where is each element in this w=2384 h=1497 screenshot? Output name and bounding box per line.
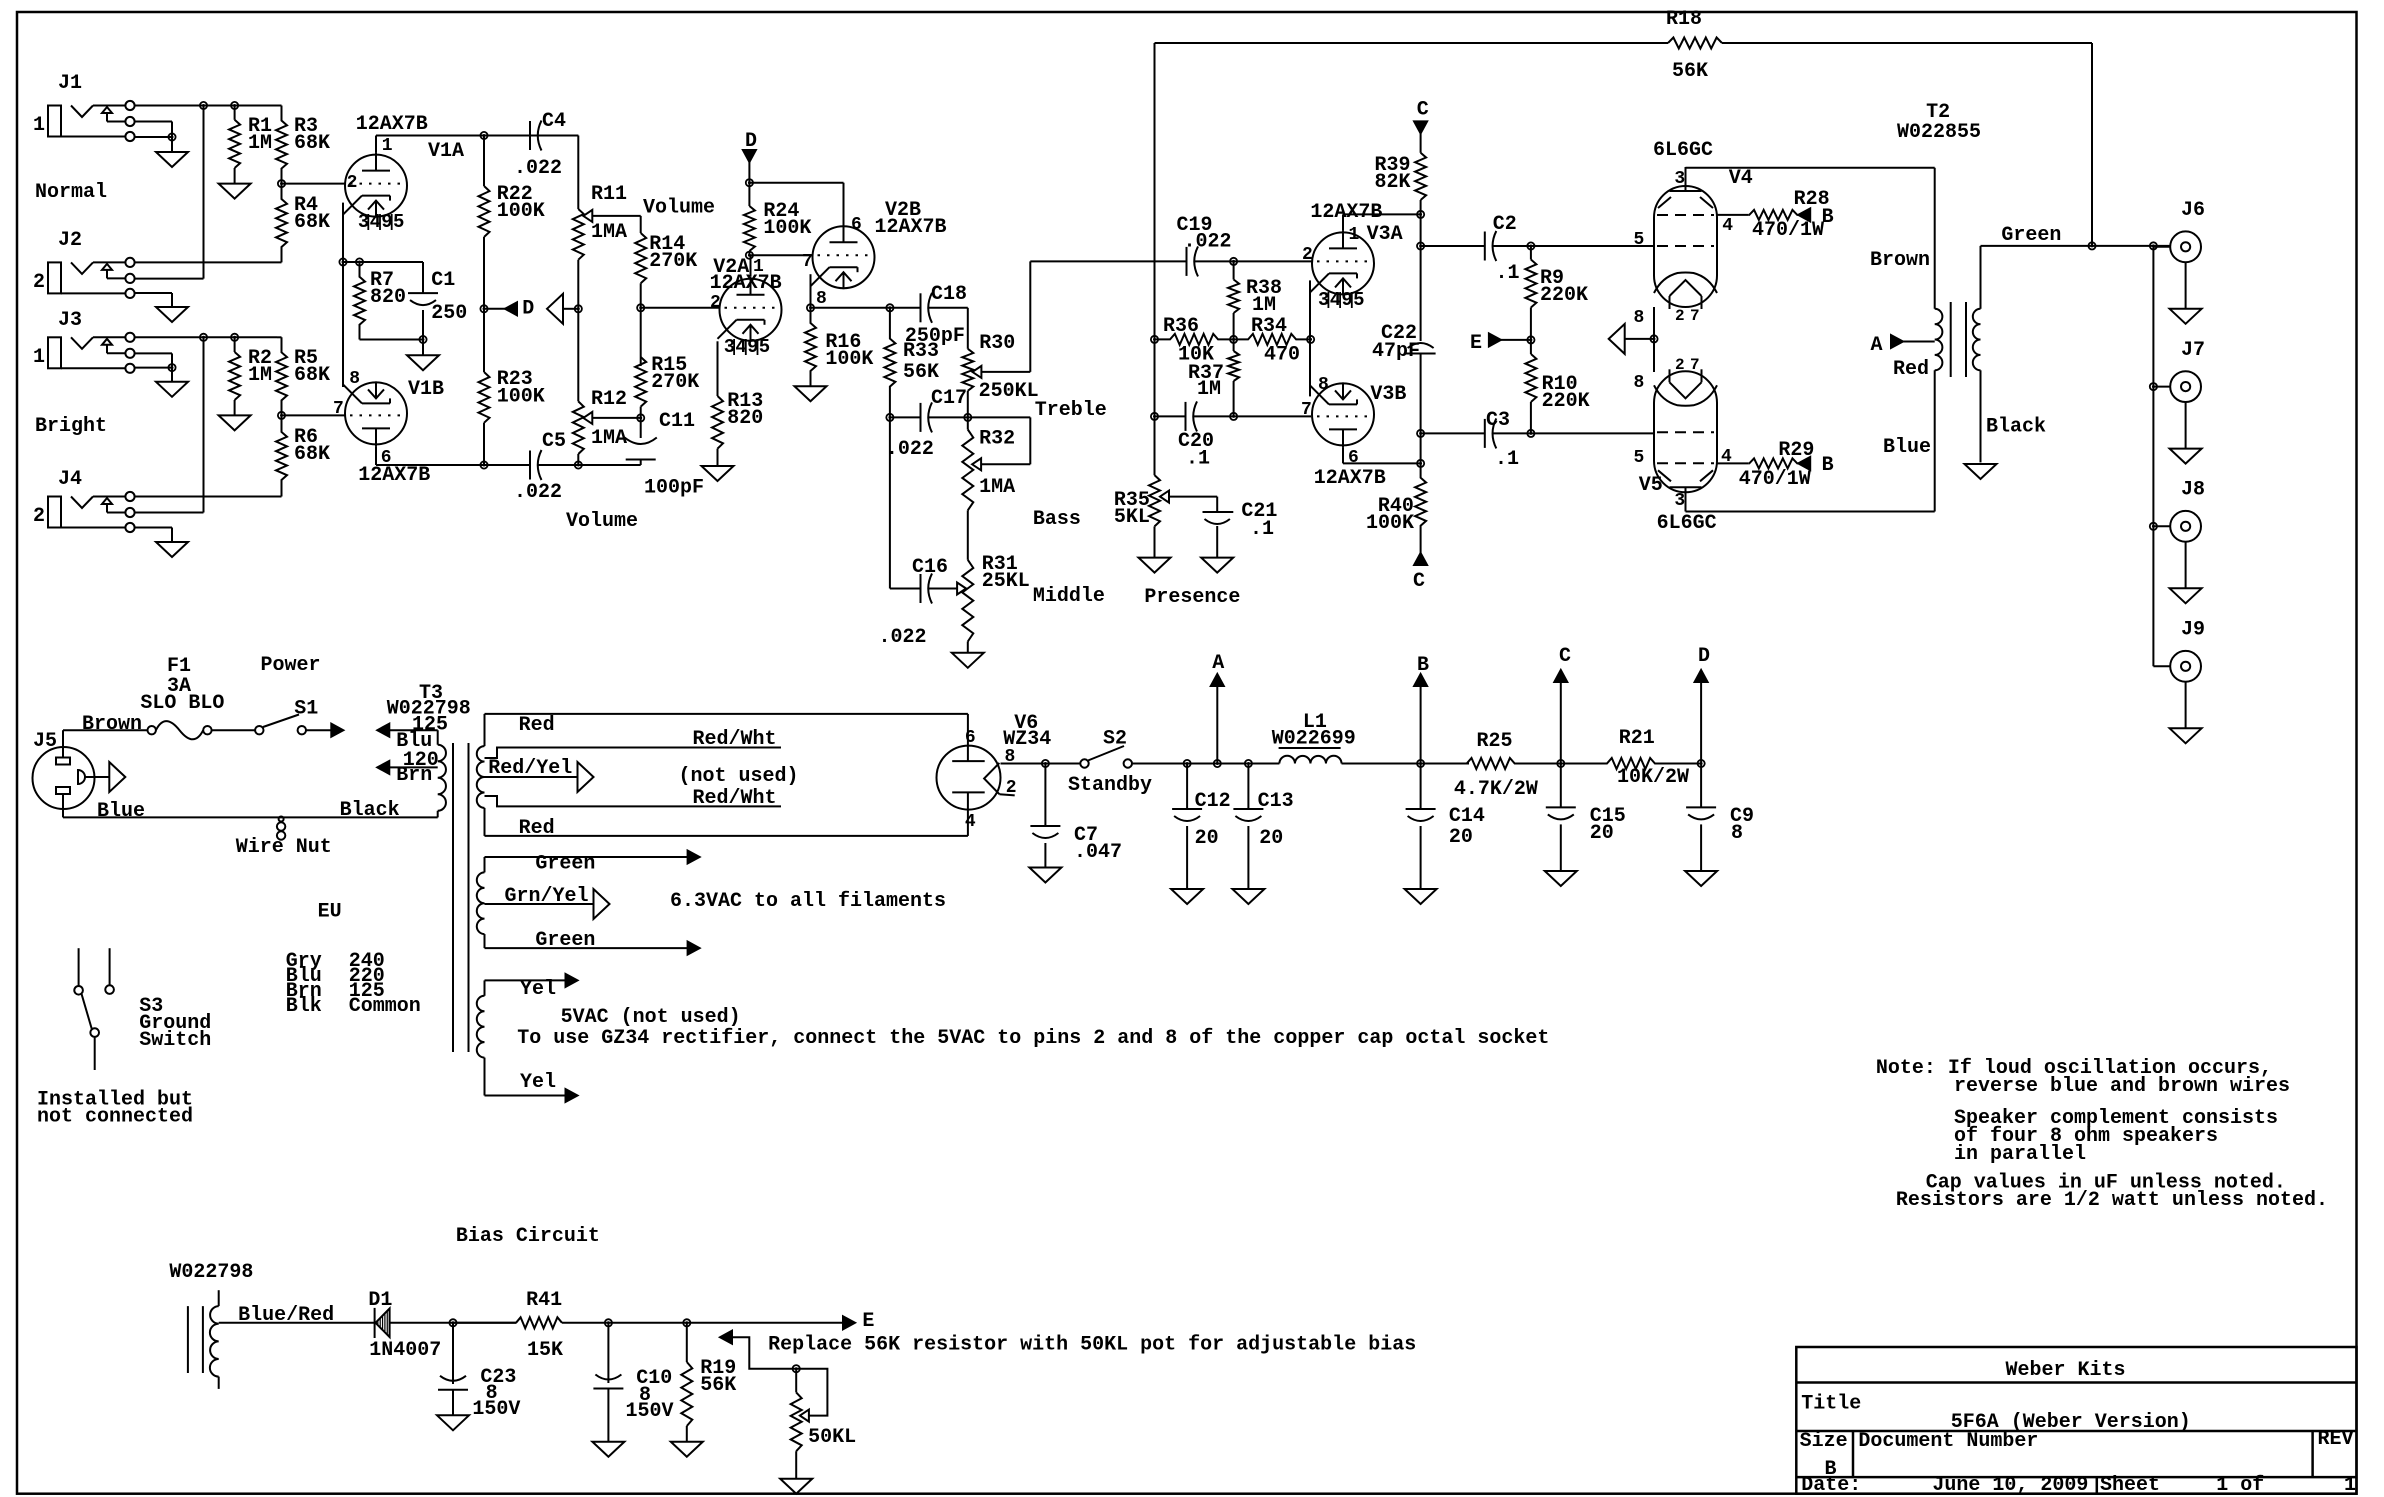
svg-text:1M: 1M (248, 132, 272, 155)
svg-text:5: 5 (1353, 289, 1364, 311)
resistor R1 (234, 106, 236, 120)
hollow arrow at 6L6 cathode node (1609, 324, 1625, 354)
resistor R33 (884, 308, 895, 418)
svg-text:25KL: 25KL (982, 570, 1030, 593)
svg-text:12AX7B: 12AX7B (710, 272, 782, 295)
wire T3 primary bottom Black to J5 (63, 816, 438, 818)
svg-text:250KL: 250KL (979, 380, 1039, 403)
title block (1796, 1347, 2356, 1494)
svg-text:56K: 56K (1672, 60, 1708, 83)
svg-text:82K: 82K (1375, 171, 1411, 194)
svg-text:C16: C16 (912, 556, 948, 579)
svg-text:270K: 270K (651, 371, 699, 394)
svg-text:5: 5 (1633, 448, 1644, 468)
capacitor C12 20 (1186, 764, 1188, 810)
svg-text:50KL: 50KL (808, 1426, 856, 1449)
potentiometer R35 Presence 5KL (1154, 416, 1156, 475)
svg-text:2: 2 (33, 271, 45, 294)
capacitor C5 (529, 451, 531, 480)
potentiometer R30 Treble 250KL (962, 349, 973, 391)
capacitor C17 (920, 403, 922, 432)
flag arrow into T3 Blu tap (377, 724, 389, 737)
svg-text:1MA: 1MA (591, 221, 627, 244)
svg-text:1M: 1M (248, 364, 272, 387)
triode V1B 12AX7B (345, 382, 407, 444)
triode V3B 12AX7B (1312, 383, 1374, 445)
ground R1 (219, 184, 251, 199)
ground C23 (437, 1415, 469, 1430)
triode V2A 12AX7B (720, 279, 782, 341)
wire V2B cathode node right (811, 307, 921, 309)
svg-text:W022798: W022798 (169, 1261, 253, 1284)
wire V3B plate down (1342, 447, 1344, 463)
flag B at R28 (1798, 208, 1810, 221)
resistor R40 100K (1415, 463, 1426, 540)
svg-text:5: 5 (759, 336, 770, 358)
wire J5 ground pin to hollow arrow (85, 776, 109, 778)
svg-text:47pF: 47pF (1372, 340, 1420, 363)
ground J6 (2170, 309, 2202, 324)
wire J3 tip rail (135, 336, 277, 338)
svg-text:J1: J1 (58, 72, 82, 95)
ground C7 (1029, 868, 1061, 883)
resistor R34 470 (1234, 334, 1311, 345)
svg-text:6.3VAC to all filaments: 6.3VAC to all filaments (670, 890, 946, 913)
wire J4 sleeve to ground (135, 527, 172, 529)
svg-text:Red: Red (1893, 358, 1929, 381)
svg-text:C4: C4 (542, 110, 566, 133)
ground C15 (1545, 871, 1577, 886)
svg-text:1MA: 1MA (591, 427, 627, 450)
svg-text:B: B (1822, 454, 1834, 477)
svg-text:R32: R32 (979, 428, 1015, 451)
svg-text:D: D (522, 298, 534, 321)
wire speaker bus (2152, 246, 2154, 666)
svg-text:R34: R34 (1251, 315, 1287, 338)
ground R16 (795, 386, 827, 401)
resistor R38 1M (1233, 261, 1235, 279)
svg-text:R12: R12 (591, 388, 627, 411)
svg-text:J6: J6 (2181, 199, 2205, 222)
flag arrow into T3 Brn tap (377, 761, 389, 774)
svg-text:7: 7 (1301, 400, 1312, 420)
T2 primary winding (1934, 168, 1936, 309)
svg-text:E: E (1470, 332, 1482, 355)
resistor R10 220K (1530, 340, 1532, 354)
resistor R37 1M (1233, 339, 1235, 351)
svg-text:R25: R25 (1477, 730, 1513, 753)
wire S1 to arrow (306, 729, 331, 731)
svg-text:.1: .1 (1250, 518, 1274, 541)
wire R39 to C2 node (1420, 214, 1422, 246)
capacitor C9 8 (1700, 764, 1702, 808)
svg-text:7: 7 (333, 399, 344, 419)
wire V6 cathode pin 8 to standby switch (1001, 763, 1081, 765)
svg-text:4.7K/2W: 4.7K/2W (1454, 778, 1538, 801)
T2 secondary bottom to ground (1980, 370, 1982, 462)
wire J1 sleeve-mid (135, 136, 172, 138)
svg-text:June 10, 2009: June 10, 2009 (1932, 1474, 2088, 1497)
svg-text:A: A (1871, 334, 1883, 357)
svg-text:Red/Wht: Red/Wht (693, 728, 777, 751)
svg-text:68K: 68K (294, 132, 330, 155)
wire V1A cathode down (342, 203, 344, 262)
T3 Grn/Yel tap (485, 903, 594, 905)
bottom rail C5/C11 (539, 464, 641, 466)
wire V3A plate to R39 node (1342, 214, 1344, 230)
svg-text:V1A: V1A (428, 140, 464, 163)
ground J9 (2170, 728, 2202, 743)
svg-text:.1: .1 (1186, 448, 1210, 471)
svg-text:5: 5 (1633, 230, 1644, 250)
svg-text:C: C (1413, 570, 1425, 593)
svg-text:Wire Nut: Wire Nut (236, 836, 332, 859)
ground C21 (1201, 558, 1233, 573)
capacitor C14 20 (1420, 764, 1422, 810)
wire C16 row (889, 417, 891, 588)
resistor R24 (748, 183, 750, 206)
T3 Yel bottom tap (484, 1058, 486, 1096)
svg-text:2: 2 (1675, 356, 1685, 374)
svg-text:C18: C18 (931, 283, 967, 306)
wire V1B plate down to bottom rail (375, 446, 377, 465)
svg-text:7: 7 (1690, 356, 1700, 374)
wire R41 to R19/E (608, 1322, 843, 1324)
T3 tap Red/Yel to hollow arrow (485, 776, 578, 778)
wire C17 row (890, 416, 921, 418)
svg-text:Red: Red (519, 714, 555, 737)
T2 secondary winding (1973, 309, 1981, 371)
svg-text:Red/Yel: Red/Yel (488, 757, 572, 780)
svg-text:8: 8 (349, 369, 360, 389)
svg-text:Document Number: Document Number (1858, 1430, 2038, 1453)
svg-text:.022: .022 (886, 438, 934, 461)
ground R2 (219, 415, 251, 430)
resistor R14 (640, 216, 642, 233)
wire V4 plate to transformer (1685, 166, 1687, 169)
svg-text:1: 1 (33, 346, 45, 369)
wire R3/R4 node to V1A grid pin 2 (282, 183, 346, 185)
wire S2 to filter caps (1132, 763, 1279, 765)
svg-text:J3: J3 (58, 309, 82, 332)
svg-text:C11: C11 (659, 410, 695, 433)
svg-text:Power: Power (261, 654, 321, 677)
svg-text:1: 1 (33, 114, 45, 137)
resistor R6 (276, 415, 287, 496)
svg-text:.1: .1 (1495, 448, 1519, 471)
svg-text:20: 20 (1259, 827, 1283, 850)
svg-text:V3B: V3B (1370, 383, 1406, 406)
svg-text:Middle: Middle (1033, 585, 1105, 608)
ground R19 (671, 1442, 703, 1457)
svg-text:R18: R18 (1666, 8, 1702, 31)
svg-text:A: A (1212, 652, 1224, 675)
svg-text:Brown: Brown (82, 713, 142, 736)
svg-text:100K: 100K (1366, 512, 1414, 535)
svg-text:2: 2 (33, 505, 45, 528)
resistor R16 (805, 308, 816, 386)
resistor R2 (234, 337, 236, 352)
wire J3 middle to sleeve (135, 352, 172, 354)
resistor R15 (640, 308, 642, 366)
svg-text:820: 820 (370, 286, 406, 309)
wire V2A plate lead (750, 255, 752, 276)
feedback line from R18 rail (1154, 43, 1156, 475)
wiper R32 (972, 458, 981, 470)
capacitor C11 (640, 418, 642, 438)
flag E bias output (843, 1316, 855, 1329)
flag arrow to 50KL pot note (720, 1331, 732, 1344)
resistor R7 (354, 262, 365, 340)
wire R7/C1 bottom (360, 339, 424, 341)
svg-text:C12: C12 (1195, 790, 1231, 813)
svg-text:C: C (1417, 99, 1429, 122)
ground T2 secondary (1965, 464, 1997, 479)
triode V2B 12AX7B (813, 226, 875, 288)
svg-text:56K: 56K (903, 361, 939, 384)
svg-text:C: C (1559, 645, 1571, 668)
T3 secondary Red bottom lead (484, 808, 486, 836)
svg-text:12AX7B: 12AX7B (358, 464, 430, 487)
svg-text:reverse blue and brown wires: reverse blue and brown wires (1954, 1075, 2290, 1098)
flag B at R29 (1798, 457, 1810, 470)
svg-text:1: 1 (753, 257, 764, 277)
svg-text:150V: 150V (626, 1400, 674, 1423)
svg-text:Brown: Brown (1870, 249, 1930, 272)
resistor R28 470/1W (1748, 210, 1798, 220)
svg-text:Bias Circuit: Bias Circuit (456, 1225, 600, 1248)
wire cathode node to R7/C1 (343, 261, 423, 263)
svg-text:220K: 220K (1540, 284, 1588, 307)
flag C below R40 (1414, 553, 1427, 565)
svg-text:100K: 100K (497, 200, 545, 223)
wire V3B cathode up to tail node (1309, 339, 1311, 396)
T3 Green bottom tap (484, 934, 486, 948)
svg-text:B: B (1417, 654, 1429, 677)
wire Blue/Red tap to diode (219, 1322, 375, 1324)
resistor R29 470/1W (1748, 458, 1798, 468)
svg-text:Common: Common (349, 995, 421, 1018)
wire fuse to S1 (212, 729, 256, 731)
svg-text:6: 6 (851, 215, 862, 235)
wire nut (279, 817, 284, 822)
svg-text:C13: C13 (1258, 790, 1294, 813)
svg-text:V5: V5 (1639, 474, 1663, 497)
svg-text:10K/2W: 10K/2W (1617, 766, 1689, 789)
svg-text:68K: 68K (294, 211, 330, 234)
svg-text:Sheet: Sheet (2100, 1474, 2160, 1497)
T2 core (1950, 302, 1952, 377)
svg-text:8: 8 (1318, 375, 1329, 395)
svg-text:Black: Black (1986, 416, 2046, 439)
potentiometer R12 (573, 401, 584, 454)
ground R13 (702, 466, 734, 481)
svg-text:Blue: Blue (97, 800, 145, 823)
capacitor C7 .047 (1044, 764, 1046, 827)
resistor R41 15K (453, 1322, 516, 1324)
T3 secondary Red top lead (484, 714, 486, 746)
svg-text:6L6GC: 6L6GC (1657, 512, 1717, 535)
capacitor C15 20 (1560, 764, 1562, 808)
svg-text:C1: C1 (431, 269, 455, 292)
svg-text:W022855: W022855 (1897, 121, 1981, 144)
svg-text:Normal: Normal (35, 181, 107, 204)
svg-text:Green: Green (535, 929, 595, 952)
capacitor C3 (1421, 432, 1485, 434)
svg-text:Standby: Standby (1068, 774, 1152, 797)
svg-text:V3A: V3A (1367, 223, 1403, 246)
ground R35 (1139, 558, 1171, 573)
svg-text:68K: 68K (294, 443, 330, 466)
svg-text:Blue: Blue (1883, 436, 1931, 459)
svg-text:20: 20 (1195, 827, 1219, 850)
ground J2 (156, 307, 188, 322)
capacitor C1 (422, 262, 424, 293)
wire R14/R15 node to V2A grid pin 2 (641, 307, 719, 309)
T3 core (452, 743, 454, 1052)
svg-text:V4: V4 (1729, 167, 1753, 190)
svg-text:8: 8 (1731, 822, 1743, 845)
svg-text:Switch: Switch (139, 1029, 211, 1052)
capacitor C20 (1155, 415, 1186, 417)
ground J1 (171, 137, 173, 152)
svg-text:S1: S1 (294, 698, 318, 721)
svg-text:4: 4 (1722, 216, 1733, 236)
svg-text:Date:: Date: (1801, 1474, 1861, 1497)
svg-text:5KL: 5KL (1114, 506, 1150, 529)
potentiometer R11 Volume (577, 136, 579, 210)
wire R6 bottom to J4 tip (135, 496, 282, 498)
resistor R4 (276, 184, 287, 263)
ground R31 (967, 642, 969, 653)
wiper 50KL (800, 1410, 809, 1422)
svg-text:C3: C3 (1486, 409, 1510, 432)
svg-text:7: 7 (802, 252, 813, 272)
wire V5 plate to transformer (1685, 492, 1687, 512)
svg-text:J7: J7 (2181, 339, 2205, 362)
wire R32 top loop (968, 416, 1031, 418)
ground J4 (156, 542, 188, 557)
wire R32 to R31 (967, 510, 969, 560)
svg-text:8: 8 (1633, 373, 1644, 393)
wire diode to R41 (390, 1322, 517, 1324)
T3 Green top tap (484, 857, 486, 872)
svg-text:.047: .047 (1074, 841, 1122, 864)
svg-text:3: 3 (1674, 491, 1685, 511)
resistor R22 (483, 136, 485, 187)
resistor R39 82K (1415, 153, 1426, 200)
svg-text:Yel: Yel (520, 978, 556, 1001)
wire V1B cathode pin 8 (342, 262, 344, 387)
ground C14 (1405, 889, 1437, 904)
resistor R18 56K (1155, 42, 1669, 44)
svg-text:7: 7 (1690, 307, 1700, 325)
svg-text:J9: J9 (2181, 619, 2205, 642)
wire treble out to V3A grid (1030, 260, 1186, 262)
svg-text:12AX7B: 12AX7B (1310, 201, 1382, 224)
svg-text:(not used): (not used) (679, 765, 799, 788)
potentiometer 50KL (795, 1369, 797, 1393)
potentiometer R31 25KL (962, 560, 973, 642)
capacitor C18 (920, 293, 922, 322)
svg-text:.022: .022 (1184, 230, 1232, 253)
svg-text:.022: .022 (514, 157, 562, 180)
capacitor C16 (920, 574, 922, 603)
wiper R35 (1160, 491, 1169, 503)
svg-text:12AX7B: 12AX7B (1314, 467, 1386, 490)
svg-text:1: 1 (1349, 225, 1360, 245)
wire V3A cathode to tail node (1309, 280, 1311, 339)
svg-text:Size: Size (1800, 1430, 1848, 1453)
svg-text:820: 820 (727, 407, 763, 430)
svg-text:470/1W: 470/1W (1752, 219, 1824, 242)
wire J3 tip down to J4 middle (203, 337, 205, 512)
svg-text:.1: .1 (1496, 262, 1520, 285)
svg-text:E: E (862, 1310, 874, 1333)
svg-text:6L6GC: 6L6GC (1653, 139, 1713, 162)
svg-text:R41: R41 (526, 1289, 562, 1312)
wire J5 hot to fuse (62, 730, 64, 757)
resistor R13 (717, 341, 719, 396)
resistor R23 (483, 309, 485, 372)
svg-text:Green: Green (2001, 224, 2061, 247)
svg-text:J8: J8 (2181, 479, 2205, 502)
svg-text:470/1W: 470/1W (1739, 468, 1811, 491)
svg-text:2: 2 (1006, 778, 1017, 798)
wire R5/R6 node to V1B grid pin 7 (282, 414, 346, 416)
resistor R21 10K/2W (1561, 758, 1701, 769)
svg-text:1N4007: 1N4007 (369, 1339, 441, 1362)
svg-text:8: 8 (816, 289, 827, 309)
wire R4 bottom to J2 tip (135, 261, 282, 263)
svg-text:D: D (1698, 645, 1710, 668)
wire C18 to R30 (929, 307, 968, 309)
svg-text:Title: Title (1801, 1393, 1861, 1416)
svg-text:Blue/Red: Blue/Red (238, 1304, 334, 1327)
capacitor C22 47pF (1420, 246, 1422, 341)
switch S3 ground switch (78, 948, 80, 986)
svg-text:20: 20 (1449, 826, 1473, 849)
potentiometer R32 1MA (962, 430, 973, 511)
svg-text:15K: 15K (527, 1339, 563, 1362)
pentode V5 6L6GC (1654, 371, 1717, 492)
capacitor C10 8 150V (607, 1323, 609, 1383)
resistor R25 4.7K/2W (1421, 758, 1561, 769)
svg-text:1M: 1M (1252, 294, 1276, 317)
T3 tap Red/Wht upper (not used) (485, 748, 782, 759)
wire V3B plate node to R40 (1420, 433, 1422, 463)
ground J7 (2170, 449, 2202, 464)
svg-text:SLO BLO: SLO BLO (140, 692, 224, 715)
T3 tap Red/Wht lower (not used) (485, 796, 782, 806)
ground C9 (1685, 871, 1717, 886)
svg-text:1M: 1M (1197, 378, 1221, 401)
T3 5V winding (477, 996, 485, 1058)
flag D at R22/R23 node (484, 308, 505, 310)
ground R7/C1 (422, 340, 424, 356)
svg-text:Treble: Treble (1035, 399, 1107, 422)
capacitor C23 8 150V (452, 1323, 454, 1384)
wiper R12 (583, 412, 592, 424)
capacitor C19 (1186, 247, 1188, 276)
svg-text:470: 470 (1264, 344, 1300, 367)
svg-text:Presence: Presence (1144, 586, 1240, 609)
svg-text:Resistors are 1/2 watt unless: Resistors are 1/2 watt unless noted. (1896, 1189, 2328, 1212)
svg-text:R33: R33 (903, 340, 939, 363)
T3 Yel top tap (484, 980, 486, 995)
T3 6.3V winding (477, 872, 485, 934)
svg-text:1: 1 (382, 136, 393, 156)
